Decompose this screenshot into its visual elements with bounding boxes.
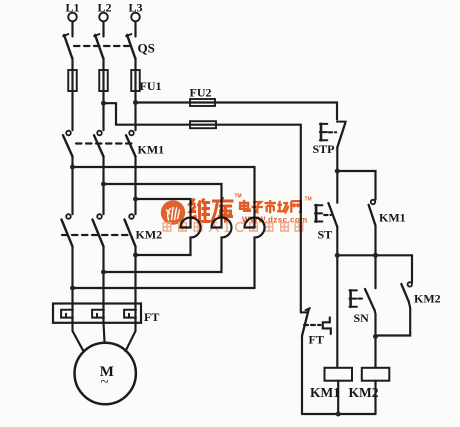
svg-text:ST: ST [318,228,333,242]
svg-text:KM2: KM2 [414,292,441,306]
svg-text:L2: L2 [98,1,112,15]
svg-text:QS: QS [138,41,155,56]
svg-text:L3: L3 [129,1,143,15]
svg-text:TM: TM [305,197,312,203]
svg-text:SN: SN [354,311,370,325]
svg-text:KM1: KM1 [379,211,406,225]
svg-text:FT: FT [144,310,159,324]
svg-text:FT: FT [309,333,324,347]
svg-text:FU1: FU1 [140,79,162,93]
svg-text:KM1: KM1 [138,143,165,157]
svg-text:KM2: KM2 [349,385,379,400]
svg-text:TM: TM [235,194,242,200]
svg-text:~: ~ [101,375,109,391]
svg-text:STP: STP [313,142,335,156]
svg-text:KM2: KM2 [136,228,163,242]
svg-text:FU2: FU2 [190,86,212,100]
svg-text:KM1: KM1 [310,385,340,400]
svg-text:L1: L1 [66,1,80,15]
